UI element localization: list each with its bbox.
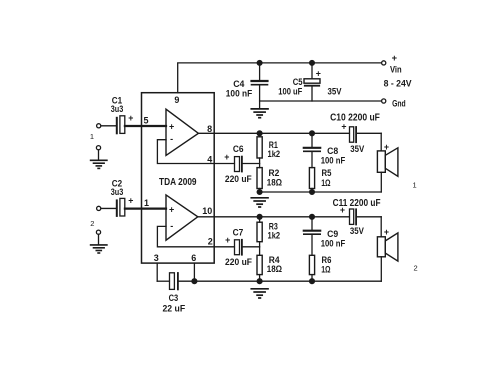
label C4 value bbox=[226, 79, 253, 98]
svg-text:3u3: 3u3 bbox=[111, 104, 124, 114]
svg-text:100 nF: 100 nF bbox=[321, 156, 346, 166]
label C6 value bbox=[225, 144, 252, 184]
svg-text:8 - 24V: 8 - 24V bbox=[384, 78, 413, 88]
svg-text:18Ω: 18Ω bbox=[267, 264, 282, 274]
ground (input 2) bbox=[91, 245, 107, 253]
svg-text:18Ω: 18Ω bbox=[267, 178, 282, 188]
wire op-amp A2 output pin10 to C11 bbox=[198, 216, 350, 218]
svg-text:4: 4 bbox=[207, 155, 212, 165]
resistor R3 bbox=[257, 217, 262, 242]
svg-text:2: 2 bbox=[208, 237, 213, 247]
svg-text:1Ω: 1Ω bbox=[321, 178, 330, 188]
node junction dot R2 ground bbox=[257, 190, 262, 195]
wire gnd rail C4 to Gnd terminal bbox=[260, 100, 382, 102]
wire C6 to R1 R2 junction bbox=[243, 163, 260, 165]
svg-text:Vin: Vin bbox=[390, 65, 402, 75]
wire op-amp A1 output pin8 to C10 bbox=[198, 132, 349, 134]
wire C10 to speaker 1 bbox=[380, 133, 382, 151]
wire return line channel1 bbox=[260, 191, 382, 193]
label C2 value bbox=[111, 179, 124, 198]
op-amp A2 triangle bbox=[166, 195, 198, 240]
svg-text:-: - bbox=[170, 221, 173, 231]
label R5 value bbox=[321, 168, 331, 188]
svg-text:1Ω: 1Ω bbox=[321, 264, 330, 274]
wire C7 to R3 R4 junction bbox=[243, 246, 260, 248]
svg-text:+: + bbox=[128, 196, 133, 206]
svg-text:1k2: 1k2 bbox=[268, 149, 281, 159]
label R3 value bbox=[268, 221, 281, 240]
wire feedback A1 pin4 to C6 bbox=[157, 140, 234, 164]
svg-text:10: 10 bbox=[202, 206, 212, 216]
svg-text:+: + bbox=[224, 152, 229, 162]
label R2 value bbox=[267, 168, 282, 188]
svg-text:3: 3 bbox=[154, 253, 159, 263]
node Gnd terminal bbox=[382, 99, 386, 103]
wire pin3 stem bbox=[156, 263, 158, 281]
wire C1 to op-amp pin5 bbox=[125, 125, 166, 127]
svg-text:6: 6 bbox=[191, 253, 196, 263]
svg-text:100 nF: 100 nF bbox=[226, 88, 253, 98]
node ground terminal 1 bbox=[96, 146, 100, 150]
svg-text:-: - bbox=[170, 134, 173, 144]
ground (input 1) bbox=[91, 160, 107, 168]
wire pin6 stem bbox=[193, 263, 195, 281]
wire top rail pin9 to Vin bbox=[178, 63, 382, 93]
ground (below C4) bbox=[251, 109, 268, 118]
label C3 value bbox=[162, 293, 185, 314]
node input 2 terminal bbox=[97, 206, 101, 210]
svg-text:35V: 35V bbox=[350, 144, 364, 154]
svg-text:R2: R2 bbox=[269, 168, 280, 178]
wire input2 to C2 bbox=[101, 207, 116, 209]
capacitor C1 bbox=[117, 116, 125, 134]
node junction dot rail C5 bbox=[310, 61, 315, 66]
resistor R2 bbox=[257, 168, 262, 192]
capacitor C6 bbox=[235, 157, 242, 172]
svg-text:C5: C5 bbox=[293, 77, 303, 87]
node junction dot rail C4 bbox=[257, 61, 262, 66]
wire feedback A2 pin2 to C7 bbox=[157, 226, 234, 246]
svg-text:9: 9 bbox=[174, 95, 179, 105]
svg-text:+: + bbox=[316, 68, 321, 78]
svg-text:35V: 35V bbox=[350, 226, 364, 236]
label R6 value bbox=[321, 255, 331, 274]
node input 1 terminal bbox=[97, 124, 101, 128]
label C1 value bbox=[111, 95, 124, 114]
node ground terminal 2 bbox=[96, 230, 100, 234]
label C9 value bbox=[321, 229, 346, 248]
svg-text:C8: C8 bbox=[327, 146, 338, 156]
resistor R4 bbox=[257, 255, 262, 281]
svg-text:+: + bbox=[340, 205, 345, 215]
svg-text:1k2: 1k2 bbox=[268, 231, 281, 241]
wire R1 to R2 bbox=[259, 158, 261, 168]
speaker LS1 bbox=[377, 148, 398, 177]
capacitor C7 bbox=[235, 240, 242, 255]
svg-text:+: + bbox=[384, 142, 389, 152]
svg-text:+: + bbox=[392, 53, 398, 63]
capacitor C11 bbox=[350, 209, 382, 225]
node junction dot pin8 C8 bbox=[310, 131, 315, 136]
svg-text:+: + bbox=[225, 235, 230, 245]
op-amp A1 triangle bbox=[166, 109, 198, 155]
node junction dot R5 return bbox=[310, 190, 315, 195]
wire pin3 to C3 bbox=[157, 280, 169, 282]
wire C2 to op-amp pin1 bbox=[125, 208, 166, 210]
svg-text:8: 8 bbox=[207, 124, 212, 134]
node junction dot R4 ground bbox=[257, 279, 262, 284]
ground (below R2) bbox=[251, 198, 268, 207]
label R4 value bbox=[267, 255, 282, 274]
svg-text:100 uF: 100 uF bbox=[278, 87, 303, 97]
node junction dot pin8 R1 bbox=[257, 131, 262, 136]
svg-text:1: 1 bbox=[90, 132, 94, 141]
capacitor C9 bbox=[304, 217, 320, 256]
svg-text:35V: 35V bbox=[328, 87, 342, 97]
capacitor C3 bbox=[170, 273, 178, 290]
wire R3 to R4 bbox=[259, 242, 261, 256]
svg-text:TDA 2009: TDA 2009 bbox=[159, 177, 197, 188]
svg-text:Gnd: Gnd bbox=[392, 98, 406, 108]
resistor R6 bbox=[309, 255, 314, 281]
label R1 value bbox=[268, 140, 281, 159]
wire speaker 2 return bbox=[380, 257, 382, 281]
resistor R1 bbox=[257, 133, 262, 158]
svg-text:100 nF: 100 nF bbox=[321, 239, 346, 249]
node junction dot R6 return bbox=[310, 279, 315, 284]
node Vin terminal bbox=[382, 61, 386, 65]
capacitor C2 bbox=[117, 198, 125, 216]
svg-text:2: 2 bbox=[90, 219, 94, 228]
capacitor C8 bbox=[304, 133, 320, 167]
resistor R5 bbox=[309, 168, 314, 192]
svg-text:22 uF: 22 uF bbox=[162, 304, 185, 314]
wire ground stem input1 bbox=[98, 150, 100, 160]
node junction dot pin6 bbox=[192, 279, 197, 284]
svg-text:220 uF: 220 uF bbox=[225, 257, 252, 267]
node junction dot pin10 C9 bbox=[310, 214, 315, 219]
speaker LS2 bbox=[377, 233, 398, 261]
wire input1 to C1 bbox=[101, 125, 116, 127]
svg-text:2: 2 bbox=[414, 264, 418, 273]
label C5 value bbox=[278, 77, 303, 97]
op-amp U1 (IC box TDA 2009 outline) bbox=[142, 93, 215, 263]
svg-text:5: 5 bbox=[143, 116, 148, 126]
svg-text:C10 2200 uF: C10 2200 uF bbox=[330, 113, 380, 124]
svg-text:+: + bbox=[169, 205, 174, 215]
wire return line channel2 bbox=[179, 280, 381, 282]
capacitor C4 bbox=[252, 63, 268, 108]
svg-text:1: 1 bbox=[413, 180, 417, 189]
ground (below R4) bbox=[251, 289, 268, 298]
svg-text:+: + bbox=[169, 121, 174, 131]
capacitor C5 bbox=[304, 63, 320, 101]
svg-text:1: 1 bbox=[144, 198, 149, 208]
svg-text:+: + bbox=[341, 122, 346, 132]
label C8 value bbox=[321, 146, 346, 166]
wire speaker 1 return bbox=[380, 172, 382, 192]
svg-text:C3: C3 bbox=[169, 293, 179, 303]
svg-text:3u3: 3u3 bbox=[111, 187, 124, 197]
node junction dot pin10 R3 bbox=[257, 214, 262, 219]
svg-text:R5: R5 bbox=[322, 168, 332, 178]
wire C11 to speaker 2 bbox=[380, 217, 382, 237]
label C7 value bbox=[225, 227, 252, 267]
wire ground stem input2 bbox=[98, 234, 100, 244]
svg-text:C7: C7 bbox=[233, 227, 244, 237]
svg-text:220 uF: 220 uF bbox=[225, 174, 252, 184]
svg-text:+: + bbox=[128, 113, 133, 123]
capacitor C10 bbox=[350, 127, 382, 142]
svg-text:+: + bbox=[384, 227, 389, 237]
svg-text:C6: C6 bbox=[233, 144, 244, 154]
